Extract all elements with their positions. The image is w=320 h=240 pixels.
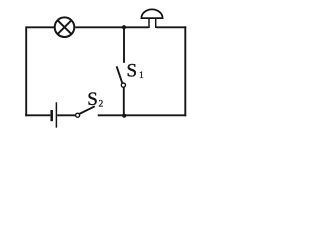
- svg-text:S: S: [87, 89, 98, 110]
- wire: left vertical border: [25, 26, 27, 116]
- node/junction dot: bottom of middle branch: [122, 114, 126, 118]
- wire: bottom-left horizontal (corner to battery): [25, 114, 50, 116]
- wire: top-middle horizontal (lamp to bell left leg): [75, 26, 148, 28]
- node/junction dot: top of middle branch: [122, 25, 126, 29]
- wire: right vertical border: [184, 26, 186, 116]
- wire: middle branch upper segment: [123, 27, 125, 62]
- svg-text:1: 1: [139, 71, 144, 81]
- wire: battery to switch S2 pivot: [57, 114, 75, 116]
- battery BT1: long thin plate (positive): [55, 102, 57, 127]
- lamp L1 (circle with X): [55, 17, 75, 37]
- switch S2 (pivot circle + open blade): [76, 106, 95, 117]
- svg-text:2: 2: [99, 100, 104, 110]
- wire: top-left horizontal (corner to lamp): [26, 26, 54, 28]
- battery BT1: short thick plate (negative): [50, 110, 53, 121]
- electric bell B1 (dome on two legs): [141, 9, 162, 28]
- wire: bottom-right horizontal (S2 right terminal to bottom-right corner): [98, 114, 187, 116]
- wire: middle branch lower segment: [123, 87, 125, 115]
- switch S1 (open blade + pivot circle): [117, 66, 126, 87]
- wire: top-right horizontal (bell right leg to top-right corner): [156, 26, 186, 28]
- svg-text:S: S: [127, 61, 138, 82]
